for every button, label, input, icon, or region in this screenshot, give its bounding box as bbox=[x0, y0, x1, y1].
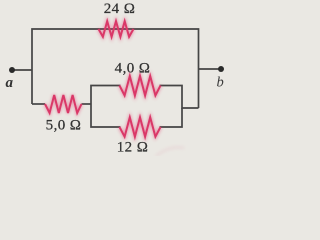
svg-text:b: b bbox=[217, 75, 224, 91]
resistor 24 ohm glow bbox=[99, 21, 134, 37]
wire box right upper bbox=[160, 86, 199, 109]
svg-text:a: a bbox=[6, 75, 14, 91]
wire bottom branch from left vertical to 5-ohm resistor bbox=[32, 103, 45, 105]
resistor 5.0 ohm glow bbox=[45, 95, 82, 113]
resistor 12 ohm bbox=[120, 117, 161, 136]
wire node b stub bbox=[199, 68, 222, 70]
wire box left lower bbox=[91, 104, 121, 127]
wire node a stub bbox=[12, 69, 32, 71]
resistor 4.0 ohm bbox=[120, 76, 161, 96]
resistor 24 ohm bbox=[99, 21, 134, 37]
wire parallel box outline bbox=[91, 86, 121, 105]
svg-text:4,0 Ω: 4,0 Ω bbox=[115, 61, 151, 77]
svg-text:12 Ω: 12 Ω bbox=[117, 140, 149, 156]
wire from 5-ohm resistor to box bbox=[82, 103, 92, 105]
wire top from left corner to right corner bbox=[32, 29, 199, 108]
resistor 12 ohm glow bbox=[120, 117, 161, 136]
wire box right lower bbox=[160, 108, 183, 127]
svg-text:24 Ω: 24 Ω bbox=[104, 1, 136, 17]
node a bbox=[9, 67, 15, 73]
resistor 4.0 ohm glow bbox=[120, 76, 161, 96]
faint smudge artifact bbox=[156, 147, 184, 156]
svg-text:5,0 Ω: 5,0 Ω bbox=[46, 118, 82, 134]
resistor 5.0 ohm bbox=[45, 95, 82, 113]
node b bbox=[218, 66, 224, 72]
